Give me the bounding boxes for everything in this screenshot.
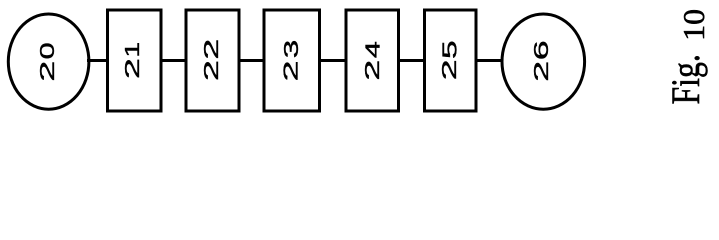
block 24 bbox=[346, 10, 399, 111]
svg-text:6: 6 bbox=[531, 40, 553, 60]
svg-text:2: 2 bbox=[201, 39, 223, 60]
block 21 bbox=[108, 10, 162, 111]
svg-text:4: 4 bbox=[361, 41, 384, 58]
svg-text:2: 2 bbox=[439, 59, 461, 80]
svg-text:3: 3 bbox=[280, 40, 302, 59]
svg-text:0: 0 bbox=[37, 42, 59, 59]
wire 25-26 bbox=[476, 59, 503, 62]
wire 23-24 bbox=[320, 59, 347, 62]
terminal node 26 bbox=[502, 14, 585, 109]
svg-text:10: 10 bbox=[676, 9, 710, 41]
wire 22-23 bbox=[239, 59, 264, 62]
block 25 bbox=[425, 10, 477, 111]
block 22 bbox=[186, 10, 239, 111]
wire 24-25 bbox=[399, 59, 426, 62]
block 23 bbox=[264, 10, 320, 111]
svg-text:2: 2 bbox=[280, 60, 302, 81]
svg-text:2: 2 bbox=[531, 61, 553, 82]
svg-text:2: 2 bbox=[362, 60, 384, 81]
svg-text:1: 1 bbox=[122, 42, 144, 58]
svg-text:2: 2 bbox=[122, 58, 144, 79]
svg-text:2: 2 bbox=[37, 61, 59, 82]
figure label Fig. 10 bbox=[664, 9, 711, 105]
svg-text:Fig.: Fig. bbox=[664, 54, 708, 104]
wire 20-21 bbox=[87, 59, 108, 62]
svg-text:5: 5 bbox=[438, 40, 460, 59]
svg-text:2: 2 bbox=[201, 60, 223, 81]
terminal node 20 bbox=[8, 14, 89, 109]
wire 21-22 bbox=[161, 59, 186, 62]
